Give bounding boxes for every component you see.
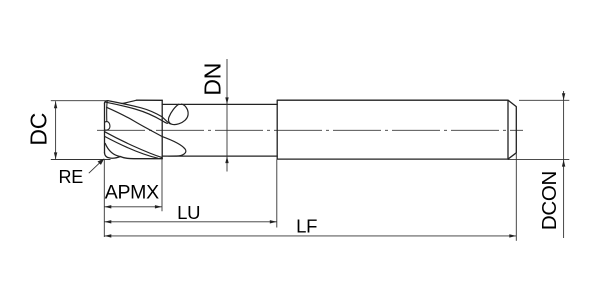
- DC arrow up: [54, 101, 57, 108]
- neck top edge: [162, 103, 277, 105]
- LU dimension line: [104, 221, 276, 223]
- end face curve: [105, 143, 120, 156]
- APMX arrow right: [155, 205, 162, 208]
- RE leader arrowhead: [98, 158, 105, 165]
- DN dimension line: [226, 59, 228, 172]
- shank chamfer line: [507, 100, 509, 159]
- flute notch curve on top silhouette: [122, 100, 137, 103]
- flute helix line L4: [105, 132, 162, 158]
- left extension line below head: [103, 160, 105, 238]
- cutter head top-left corner radius: [105, 101, 108, 104]
- DCON arrow down (above): [562, 93, 565, 100]
- APMX dimension line: [104, 206, 162, 208]
- cutter head left edge: [104, 103, 106, 153]
- flute helix line L3: [107, 107, 163, 136]
- svg-text:DCON: DCON: [538, 171, 561, 230]
- cutter head bottom edge: [105, 153, 163, 159]
- svg-text:RE: RE: [59, 167, 84, 187]
- centerline: [97, 129, 523, 131]
- svg-text:DC: DC: [26, 113, 52, 146]
- DCON bottom extension line: [508, 159, 569, 161]
- upper flute runout hook on neck: [168, 104, 188, 124]
- DC dimension line: [55, 101, 57, 159]
- LF arrow left: [104, 234, 111, 237]
- APMX right extension line: [161, 159, 163, 212]
- LU arrow right: [270, 220, 277, 223]
- cutter head top edge: [137, 99, 163, 101]
- upper hook tail B: [162, 121, 167, 124]
- cutter head right edge: [161, 100, 163, 158]
- LF arrow right: [509, 234, 516, 237]
- DCON top extension line: [519, 99, 569, 101]
- flute helix line L1: [108, 101, 162, 117]
- DC bottom extension line: [51, 159, 111, 161]
- DN arrow down (above neck): [225, 97, 228, 104]
- LU right extension line: [276, 159, 278, 227]
- svg-text:APMX: APMX: [105, 182, 159, 204]
- shank outline: [277, 100, 516, 159]
- LF right extension line: [515, 153, 517, 241]
- svg-text:LF: LF: [296, 215, 317, 236]
- DC arrow down: [54, 152, 57, 159]
- DN arrow up (below neck): [225, 156, 228, 163]
- flute helix line L2: [106, 102, 162, 121]
- center bump on end face: [105, 122, 110, 131]
- svg-text:LU: LU: [177, 202, 200, 223]
- flute helix line L5: [105, 136, 158, 158]
- DCON dimension line: [563, 91, 565, 238]
- RE leader line: [89, 160, 102, 173]
- LU arrow left: [104, 220, 111, 223]
- corner edge vertical line: [106, 102, 108, 122]
- neck bottom edge: [162, 155, 277, 157]
- svg-text:DN: DN: [199, 63, 225, 96]
- APMX arrow left: [104, 205, 111, 208]
- lower flute runout leaf on neck: [162, 137, 186, 156]
- DC top extension line: [51, 100, 107, 102]
- LF dimension line: [104, 235, 516, 237]
- DCON arrow up (below): [562, 160, 565, 167]
- upper hook tail A: [162, 117, 170, 124]
